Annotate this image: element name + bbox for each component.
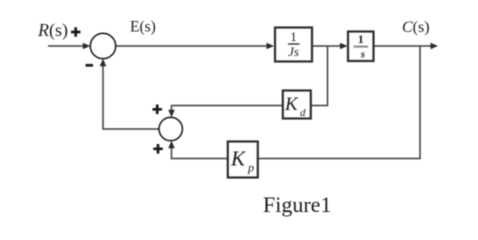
svg-text:K: K <box>284 94 299 115</box>
svg-text:E(s): E(s) <box>130 19 156 36</box>
svg-text:1: 1 <box>358 32 364 46</box>
svg-text:d: d <box>300 107 306 119</box>
svg-text:s: s <box>360 49 365 61</box>
svg-text:p: p <box>247 161 254 175</box>
svg-text:R(s): R(s) <box>37 20 68 41</box>
svg-text:C(s): C(s) <box>402 19 430 36</box>
svg-text:K: K <box>230 147 246 171</box>
svg-text:Figure1: Figure1 <box>263 192 331 217</box>
svg-text:Js: Js <box>288 44 299 59</box>
svg-text:1: 1 <box>290 29 297 44</box>
